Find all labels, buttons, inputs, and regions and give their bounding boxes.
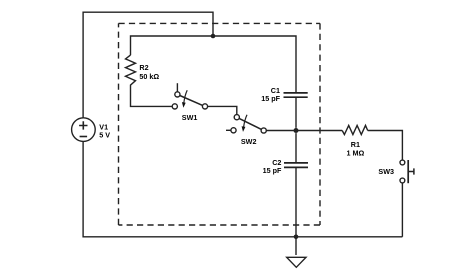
svg-text:1 MΩ: 1 MΩ [347, 149, 365, 158]
svg-text:15 pF: 15 pF [263, 166, 282, 175]
svg-text:50 kΩ: 50 kΩ [139, 72, 159, 81]
svg-text:SW3: SW3 [378, 167, 394, 176]
svg-text:5 V: 5 V [99, 130, 110, 139]
svg-text:SW1: SW1 [182, 113, 198, 122]
svg-text:SW2: SW2 [241, 137, 257, 146]
svg-text:15 pF: 15 pF [261, 94, 280, 103]
